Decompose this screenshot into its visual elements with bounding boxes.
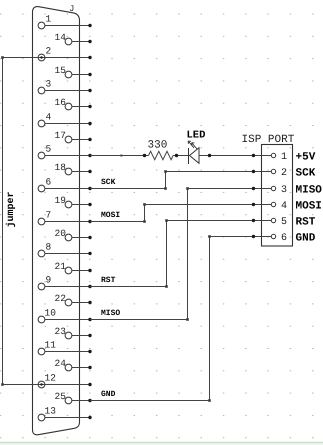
connector J pin 16 xyxy=(55,97,72,110)
svg-text:GND: GND xyxy=(296,233,316,245)
connector J pin 20 xyxy=(55,228,72,241)
wire LED to ISP pin 1 (+5V) xyxy=(199,154,271,157)
svg-text:4: 4 xyxy=(281,201,287,212)
wire from pin 16 to node xyxy=(72,105,92,108)
wire from pin 6 to node xyxy=(45,187,92,190)
connector J pin 18 xyxy=(55,162,72,175)
wire resistor to LED xyxy=(173,154,188,157)
wire from pin 13 to node xyxy=(45,416,92,419)
svg-text:5: 5 xyxy=(281,217,287,228)
wire MISO : pin10 to ISP pin3 xyxy=(90,187,271,321)
wire from pin 4 to node xyxy=(45,122,92,125)
wire pin5 to resistor xyxy=(90,154,149,157)
svg-text:11: 11 xyxy=(45,340,57,351)
connector J pin 7 xyxy=(38,210,51,225)
svg-text:1: 1 xyxy=(46,14,52,25)
connector ISP PORT outline xyxy=(262,145,293,247)
ISP pin 1 xyxy=(271,152,287,163)
connector J pin 17 xyxy=(55,130,72,143)
svg-text:17: 17 xyxy=(55,130,66,141)
connector J pin 22 xyxy=(55,293,72,306)
svg-text:13: 13 xyxy=(45,406,57,417)
resistor 330 xyxy=(149,151,174,159)
svg-text:10: 10 xyxy=(45,308,57,319)
faint junction dot on +5V wire xyxy=(120,154,123,157)
connector J pin 23 xyxy=(55,326,72,339)
svg-text:ISP PORT: ISP PORT xyxy=(242,134,295,146)
svg-text:7: 7 xyxy=(46,210,52,221)
svg-text:RST: RST xyxy=(101,276,116,285)
svg-text:18: 18 xyxy=(55,162,67,173)
wire from pin 21 to node xyxy=(72,269,92,272)
svg-text:25: 25 xyxy=(55,391,67,402)
svg-text:20: 20 xyxy=(55,228,67,239)
wire from pin 14 to node xyxy=(72,40,92,43)
svg-text:5: 5 xyxy=(46,144,52,155)
svg-text:3: 3 xyxy=(46,79,52,90)
svg-text:330: 330 xyxy=(148,140,168,152)
wire from pin 12 to node xyxy=(3,383,92,386)
connector J pin 1 xyxy=(38,14,51,29)
wire from pin 17 to node xyxy=(72,138,92,141)
wire from pin 8 to node xyxy=(45,252,92,255)
wire from pin 24 to node xyxy=(72,366,92,369)
connector J pin 15 xyxy=(55,65,72,78)
wire from pin 19 to node xyxy=(72,203,92,206)
svg-text:21: 21 xyxy=(55,261,67,272)
svg-text:15: 15 xyxy=(55,65,67,76)
wire from pin 7 to node xyxy=(45,220,92,223)
wire RST : pin9 to ISP pin5 xyxy=(90,219,271,288)
connector J (DB25) outline xyxy=(33,7,80,435)
connector J pin 8 xyxy=(38,242,51,257)
ISP pin 6 xyxy=(271,233,287,244)
connector J pin 5 xyxy=(38,144,51,159)
svg-text:19: 19 xyxy=(55,195,67,206)
wire from pin 11 to node xyxy=(45,350,92,353)
svg-text:16: 16 xyxy=(55,97,67,108)
svg-text:MOSI: MOSI xyxy=(296,201,322,213)
ISP pin 3 xyxy=(271,185,287,196)
ISP pin 2 xyxy=(271,168,287,179)
svg-text:SCK: SCK xyxy=(101,178,116,187)
svg-text:1: 1 xyxy=(281,152,287,163)
wire from pin 20 to node xyxy=(72,236,92,239)
connector J pin 2 xyxy=(38,46,51,61)
connector J pin 24 xyxy=(55,358,72,371)
wire SCK : pin6 to ISP pin2 xyxy=(90,170,271,190)
wire from pin 23 to node xyxy=(72,334,92,337)
svg-text:6: 6 xyxy=(46,177,52,188)
wire from pin 5 to node xyxy=(45,154,92,157)
svg-text:J: J xyxy=(69,4,74,14)
LED diode symbol xyxy=(188,141,199,164)
svg-text:GND: GND xyxy=(101,390,116,399)
svg-text:MISO: MISO xyxy=(101,309,120,318)
svg-text:12: 12 xyxy=(45,373,57,384)
svg-text:+5V: +5V xyxy=(296,152,316,164)
ISP pin 5 xyxy=(271,217,287,228)
svg-text:RST: RST xyxy=(296,217,316,229)
wire from pin 18 to node xyxy=(72,170,92,173)
connector J pin 14 xyxy=(55,32,72,45)
wire from pin 9 to node xyxy=(45,285,92,288)
connector J pin 4 xyxy=(38,112,51,127)
svg-text:MISO: MISO xyxy=(296,185,323,197)
wire GND : pin25 to ISP pin6 xyxy=(90,235,271,402)
svg-text:22: 22 xyxy=(55,293,67,304)
svg-text:4: 4 xyxy=(46,112,52,123)
wire from pin 3 to node xyxy=(45,89,92,92)
connector J pin 11 xyxy=(38,340,56,355)
svg-text:14: 14 xyxy=(55,32,67,43)
svg-text:24: 24 xyxy=(55,358,67,369)
connector J pin 19 xyxy=(55,195,72,208)
svg-text:9: 9 xyxy=(46,275,52,286)
wire from pin 1 to node xyxy=(45,24,92,27)
wire from pin 22 to node xyxy=(72,301,92,304)
wire MOSI : pin7 to ISP pin4 xyxy=(90,203,271,223)
svg-text:8: 8 xyxy=(46,242,52,253)
connector J pin 3 xyxy=(38,79,51,94)
svg-text:23: 23 xyxy=(55,326,67,337)
connector J pin 6 xyxy=(38,177,51,192)
connector J pin 10 xyxy=(38,308,56,323)
wire from pin 25 to node xyxy=(72,399,92,402)
connector J pin 21 xyxy=(55,261,72,274)
jumper wire (vertical bus joining pin 2 and pin 12) xyxy=(1,56,4,386)
connector J pin 25 xyxy=(55,391,72,404)
connector J pin 12 xyxy=(38,373,56,388)
ISP pin 4 xyxy=(271,201,287,212)
wire from pin 10 to node xyxy=(45,318,92,321)
wire from pin 2 to node xyxy=(3,56,92,59)
connector J pin 13 xyxy=(38,406,56,421)
wire from pin 15 to node xyxy=(72,73,92,76)
svg-text:SCK: SCK xyxy=(296,168,316,180)
svg-text:2: 2 xyxy=(46,46,52,57)
svg-text:MOSI: MOSI xyxy=(101,211,120,220)
connector J pin 9 xyxy=(38,275,51,290)
svg-text:LED: LED xyxy=(187,130,206,142)
svg-text:3: 3 xyxy=(281,185,287,196)
svg-text:6: 6 xyxy=(281,233,287,244)
svg-text:2: 2 xyxy=(281,168,287,179)
svg-text:jumper: jumper xyxy=(5,191,17,227)
